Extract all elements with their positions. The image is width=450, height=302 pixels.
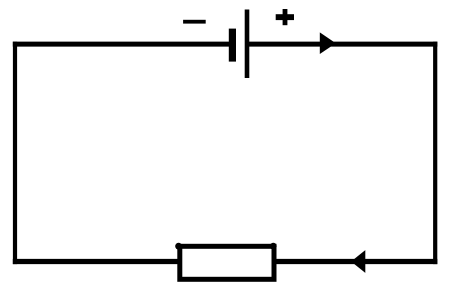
wire: right vertical [433, 42, 437, 265]
junction dot: resistor top-left [175, 243, 182, 250]
label: minus sign [183, 20, 206, 24]
battery cell: tall thin positive plate [245, 10, 250, 79]
battery cell: short thick negative plate [229, 29, 236, 62]
wire: bottom left segment (left corner to resistor) [13, 259, 181, 264]
wire: bottom right segment (resistor to right corner) [273, 259, 437, 264]
wire: top left segment (left corner to battery negative bar) [13, 42, 231, 47]
current arrow on bottom wire (pointing left) [351, 250, 365, 273]
junction dot: resistor top-right [270, 243, 277, 250]
wire: top right segment (battery positive bar to right corner) [248, 42, 438, 47]
label: plus sign [276, 9, 294, 25]
current arrow on top wire (pointing right) [320, 32, 336, 54]
resistor R (rectangle body) [180, 246, 274, 279]
wire: left vertical [13, 42, 17, 265]
